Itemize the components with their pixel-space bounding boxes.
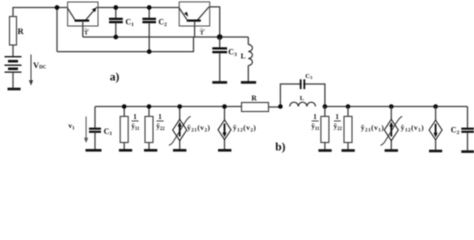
junction C1 bottom	[113, 35, 118, 40]
capacitor C3 (equiv)	[301, 73, 313, 90]
resistor 1/y22 (right)	[344, 107, 352, 150]
svg-text:1: 1	[313, 113, 317, 121]
ground (y21 v2)	[173, 149, 186, 152]
capacitor C3 (osc)	[212, 37, 237, 81]
junction node LC3-1/y11	[323, 104, 328, 109]
svg-text:1: 1	[158, 113, 162, 121]
ground (1/y11 right)	[318, 149, 331, 152]
capacitor C2 (osc)	[142, 8, 167, 52]
wire rail b left	[95, 106, 242, 108]
svg-text:L: L	[241, 51, 246, 60]
label 1/y22 (left)	[156, 113, 165, 132]
dependent source y21(v1)	[381, 107, 403, 150]
junction node y12(v1)	[433, 104, 438, 109]
svg-text:b): b)	[275, 141, 285, 153]
junction node y12(v2)	[222, 104, 227, 109]
battery V_DC	[5, 57, 22, 72]
junction node 1/y22 right	[346, 104, 351, 109]
svg-text:R: R	[251, 94, 257, 103]
junction node 1/y11 left	[122, 104, 127, 109]
label 1/y22 (right)	[334, 113, 343, 132]
capacitor C2 (equiv)	[451, 107, 474, 151]
ground (1/y11 left)	[119, 149, 132, 152]
dependent source y12(v1)	[429, 107, 442, 150]
inductor L (equiv)	[290, 95, 316, 107]
wire T2 emitter to tank	[209, 7, 220, 37]
junction node y21(v1)	[389, 104, 394, 109]
junction C2 top	[147, 5, 152, 10]
label 1/y11 (left)	[131, 113, 140, 132]
resistor R (equiv)	[242, 94, 269, 112]
ground (C3 osc)	[212, 81, 227, 84]
wire C3 bypass loop	[280, 84, 325, 107]
wire bottom rail	[57, 37, 194, 52]
voltage arrow v1	[68, 117, 88, 144]
junction C1 top	[113, 5, 118, 10]
capacitor C1 (osc)	[109, 8, 134, 38]
junction supply node	[55, 5, 60, 10]
transistor T2	[179, 2, 210, 26]
resistor R (box)	[10, 17, 25, 57]
wire T1 base lead	[82, 22, 84, 37]
wire vertical left drop	[56, 8, 58, 52]
junction node y21(v2)	[177, 104, 182, 109]
ground (battery)	[8, 88, 21, 91]
label V_DC with arrow	[29, 55, 47, 86]
ground (C1 equiv)	[86, 149, 102, 152]
label 1/y11 (right)	[311, 113, 320, 132]
label T2	[200, 29, 205, 37]
wire R to loop junction	[269, 106, 281, 108]
ground (1/y22 right)	[342, 149, 355, 152]
junction node R-LC3	[278, 104, 283, 109]
svg-text:R: R	[18, 26, 25, 36]
wire battery to ground	[12, 72, 14, 88]
wire top rail left	[13, 8, 68, 18]
dependent source y21(v2)	[169, 107, 191, 150]
svg-text:a): a)	[110, 71, 120, 83]
dependent source y12(v2)	[218, 107, 231, 150]
ground (y21 v1)	[385, 149, 398, 152]
svg-text:1: 1	[335, 113, 339, 121]
svg-text:1: 1	[133, 113, 137, 121]
resistor 1/y22 (left)	[145, 107, 153, 150]
junction node 1/y22 left	[147, 104, 152, 109]
svg-text:L: L	[300, 95, 305, 102]
label T1	[84, 29, 89, 37]
ground (y12 v1)	[429, 150, 442, 153]
resistor 1/y11 (right)	[321, 107, 329, 150]
inductor L (osc)	[241, 37, 253, 81]
junction C2 bottom	[147, 49, 152, 54]
ground (y12 v2)	[218, 149, 231, 152]
junction tank node	[217, 34, 223, 40]
transistor T1	[68, 2, 98, 26]
ground (L osc)	[241, 81, 256, 84]
ground (1/y22 left)	[144, 149, 157, 152]
wire top rail middle	[96, 7, 179, 9]
capacitor C1 (equiv)	[89, 107, 112, 150]
wire mid rail	[83, 36, 249, 38]
resistor 1/y11 (left)	[120, 107, 128, 150]
wire T2 base lead	[194, 22, 196, 37]
wire rail b right	[325, 106, 468, 108]
ground (C2 equiv)	[461, 150, 474, 153]
